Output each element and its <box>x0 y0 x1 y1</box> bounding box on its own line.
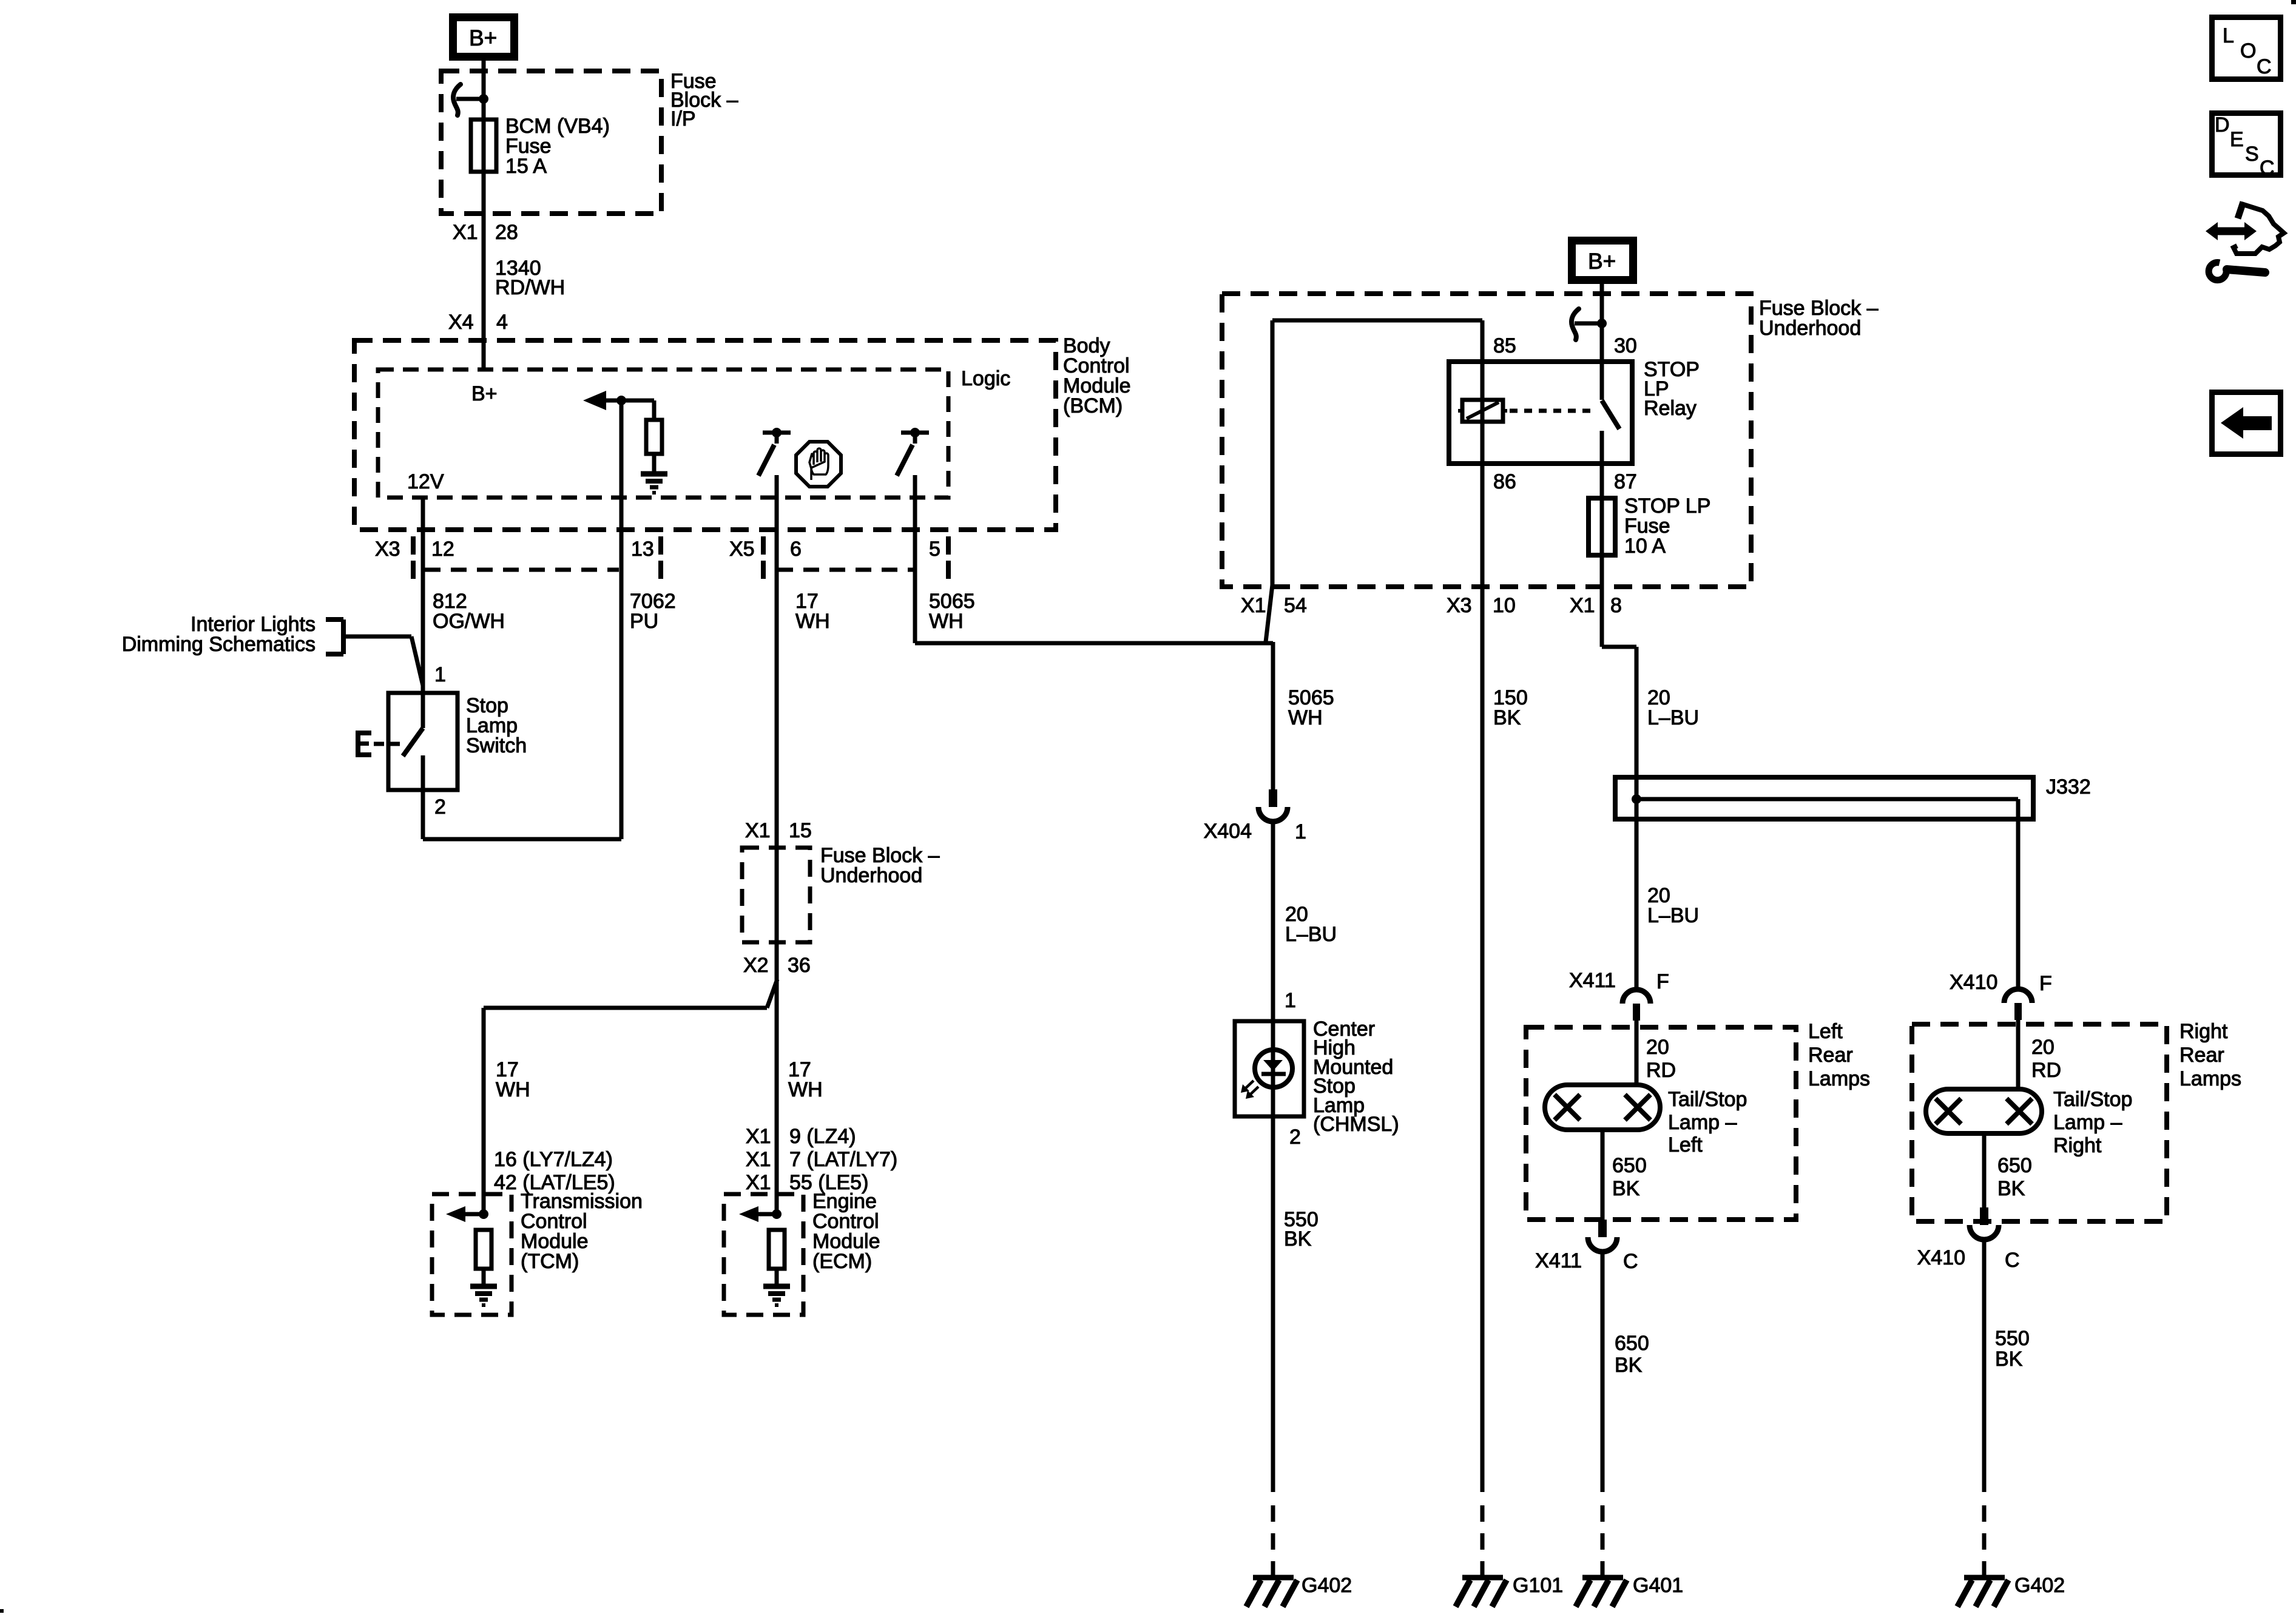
svg-text:(ECM): (ECM) <box>812 1250 872 1273</box>
svg-text:1: 1 <box>1295 820 1306 843</box>
svg-text:PU: PU <box>630 610 658 633</box>
svg-text:L: L <box>2223 24 2234 47</box>
svg-text:86: 86 <box>1493 470 1516 493</box>
svg-text:X411: X411 <box>1535 1249 1582 1272</box>
svg-text:28: 28 <box>495 221 518 244</box>
svg-text:Lamp –: Lamp – <box>2053 1111 2122 1134</box>
svg-text:J332: J332 <box>2046 775 2091 798</box>
svg-text:G402: G402 <box>1302 1574 1352 1597</box>
svg-text:10 A: 10 A <box>1624 535 1666 558</box>
svg-text:54: 54 <box>1284 594 1307 617</box>
svg-text:650: 650 <box>1997 1154 2032 1177</box>
svg-text:X410: X410 <box>1917 1246 1965 1269</box>
svg-text:7 (LAT/LY7): 7 (LAT/LY7) <box>789 1148 897 1171</box>
svg-text:Right: Right <box>2180 1020 2228 1043</box>
svg-text:20: 20 <box>1646 1036 1669 1059</box>
svg-text:BK: BK <box>1284 1227 1312 1251</box>
svg-text:Underhood: Underhood <box>820 864 922 887</box>
svg-text:Underhood: Underhood <box>1759 317 1861 340</box>
svg-text:6: 6 <box>790 538 802 561</box>
svg-text:BK: BK <box>1615 1354 1643 1377</box>
svg-text:85: 85 <box>1493 334 1516 357</box>
svg-text:O: O <box>2240 39 2256 62</box>
svg-text:OG/WH: OG/WH <box>433 610 505 633</box>
svg-text:Right: Right <box>2053 1134 2102 1157</box>
svg-text:L–BU: L–BU <box>1285 923 1337 946</box>
svg-text:X1: X1 <box>746 1125 771 1148</box>
svg-text:X1: X1 <box>453 221 478 244</box>
svg-text:B+: B+ <box>469 25 497 50</box>
svg-text:Relay: Relay <box>1644 397 1697 420</box>
svg-text:RD/WH: RD/WH <box>495 276 565 299</box>
svg-text:X411: X411 <box>1569 969 1616 992</box>
svg-text:C: C <box>2257 55 2272 78</box>
svg-text:1: 1 <box>1285 989 1296 1012</box>
svg-text:C: C <box>1623 1250 1638 1273</box>
svg-text:8: 8 <box>1610 594 1622 617</box>
svg-text:15 A: 15 A <box>505 155 547 178</box>
svg-text:X3: X3 <box>1447 594 1472 617</box>
svg-text:X1: X1 <box>746 1148 771 1171</box>
svg-text:BK: BK <box>1493 706 1521 729</box>
svg-text:20: 20 <box>2031 1036 2055 1059</box>
svg-text:X1: X1 <box>1570 594 1595 617</box>
svg-text:X410: X410 <box>1950 971 1997 994</box>
svg-text:Left: Left <box>1668 1133 1703 1156</box>
svg-text:RD: RD <box>1646 1059 1676 1082</box>
svg-text:Tail/Stop: Tail/Stop <box>1668 1088 1747 1111</box>
svg-text:12: 12 <box>431 538 454 561</box>
svg-text:G101: G101 <box>1513 1574 1563 1597</box>
svg-text:C: C <box>2260 157 2275 180</box>
svg-text:G402: G402 <box>2014 1574 2065 1597</box>
svg-text:(CHMSL): (CHMSL) <box>1313 1113 1399 1136</box>
svg-text:B+: B+ <box>1588 249 1616 274</box>
svg-text:650: 650 <box>1612 1154 1647 1177</box>
svg-text:2: 2 <box>434 795 446 819</box>
svg-text:15: 15 <box>789 819 812 842</box>
svg-text:X2: X2 <box>743 954 769 977</box>
svg-text:Tail/Stop: Tail/Stop <box>2053 1088 2132 1111</box>
svg-text:WH: WH <box>929 610 964 633</box>
svg-text:Logic: Logic <box>961 367 1010 390</box>
svg-text:9 (LZ4): 9 (LZ4) <box>789 1125 856 1148</box>
svg-text:I/P: I/P <box>670 107 696 130</box>
svg-text:Dimming Schematics: Dimming Schematics <box>122 633 316 656</box>
svg-text:X5: X5 <box>729 538 755 561</box>
svg-text:650: 650 <box>1615 1332 1649 1355</box>
svg-text:Rear: Rear <box>1808 1044 1853 1067</box>
svg-text:1: 1 <box>434 663 446 686</box>
svg-text:(BCM): (BCM) <box>1063 394 1123 417</box>
svg-text:E: E <box>2230 128 2244 151</box>
svg-text:Left: Left <box>1808 1020 1843 1043</box>
svg-text:Rear: Rear <box>2180 1044 2224 1067</box>
svg-text:X4: X4 <box>448 311 474 334</box>
svg-text:WH: WH <box>795 610 830 633</box>
svg-text:L–BU: L–BU <box>1647 904 1699 927</box>
svg-text:5: 5 <box>929 538 940 561</box>
svg-text:X3: X3 <box>375 538 400 561</box>
svg-text:Lamps: Lamps <box>2180 1067 2241 1090</box>
svg-text:Switch: Switch <box>466 734 527 757</box>
svg-text:X404: X404 <box>1204 820 1252 843</box>
svg-text:D: D <box>2215 113 2230 137</box>
svg-text:Lamp –: Lamp – <box>1668 1111 1737 1134</box>
svg-text:13: 13 <box>631 538 654 561</box>
svg-text:X1: X1 <box>746 1171 771 1194</box>
svg-text:WH: WH <box>496 1078 530 1101</box>
svg-text:10: 10 <box>1493 594 1516 617</box>
svg-text:F: F <box>1656 970 1669 993</box>
svg-text:16 (LY7/LZ4): 16 (LY7/LZ4) <box>494 1148 613 1171</box>
svg-text:F: F <box>2039 972 2052 995</box>
svg-text:BK: BK <box>1997 1177 2025 1200</box>
svg-text:WH: WH <box>1288 706 1323 729</box>
svg-text:2: 2 <box>1289 1126 1301 1149</box>
svg-text:BK: BK <box>1612 1177 1640 1200</box>
svg-text:L–BU: L–BU <box>1647 706 1699 729</box>
svg-text:G401: G401 <box>1633 1574 1683 1597</box>
svg-text:C: C <box>2005 1249 2020 1272</box>
svg-text:BK: BK <box>1995 1348 2023 1371</box>
svg-text:12V: 12V <box>407 470 444 493</box>
svg-text:550: 550 <box>1995 1327 2030 1350</box>
svg-text:30: 30 <box>1614 334 1637 357</box>
svg-text:X1: X1 <box>1241 594 1266 617</box>
svg-text:Lamps: Lamps <box>1808 1067 1870 1090</box>
svg-text:87: 87 <box>1614 470 1637 493</box>
svg-text:RD: RD <box>2031 1059 2061 1082</box>
svg-text:4: 4 <box>496 311 508 334</box>
svg-text:B+: B+ <box>471 382 498 405</box>
svg-text:WH: WH <box>788 1078 823 1101</box>
svg-text:S: S <box>2245 143 2259 166</box>
svg-text:(TCM): (TCM) <box>521 1250 579 1273</box>
svg-text:36: 36 <box>788 954 811 977</box>
svg-text:X1: X1 <box>745 819 771 842</box>
